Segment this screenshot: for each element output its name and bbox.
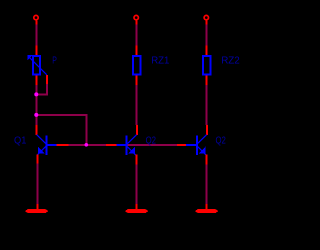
svg-text:P: P: [52, 55, 57, 66]
svg-text:Q1: Q1: [14, 135, 27, 146]
svg-text:RZ2: RZ2: [221, 55, 240, 66]
svg-text:Q2: Q2: [216, 135, 227, 146]
svg-text:RZ1: RZ1: [151, 55, 170, 66]
svg-text:Q2: Q2: [146, 135, 157, 146]
